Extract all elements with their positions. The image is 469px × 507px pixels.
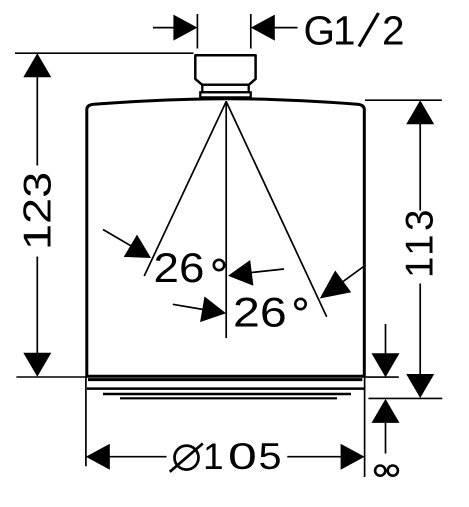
svg-text:26: 26 [154,245,205,292]
svg-text:G: G [304,7,336,53]
svg-text:0: 0 [228,435,257,477]
svg-text:1: 1 [203,436,224,477]
svg-text:1: 1 [333,7,356,53]
svg-text:26: 26 [233,288,287,335]
svg-text:2: 2 [382,7,405,53]
svg-text:113: 113 [399,206,442,278]
svg-text:5: 5 [259,436,282,477]
svg-text:123: 123 [16,172,59,250]
